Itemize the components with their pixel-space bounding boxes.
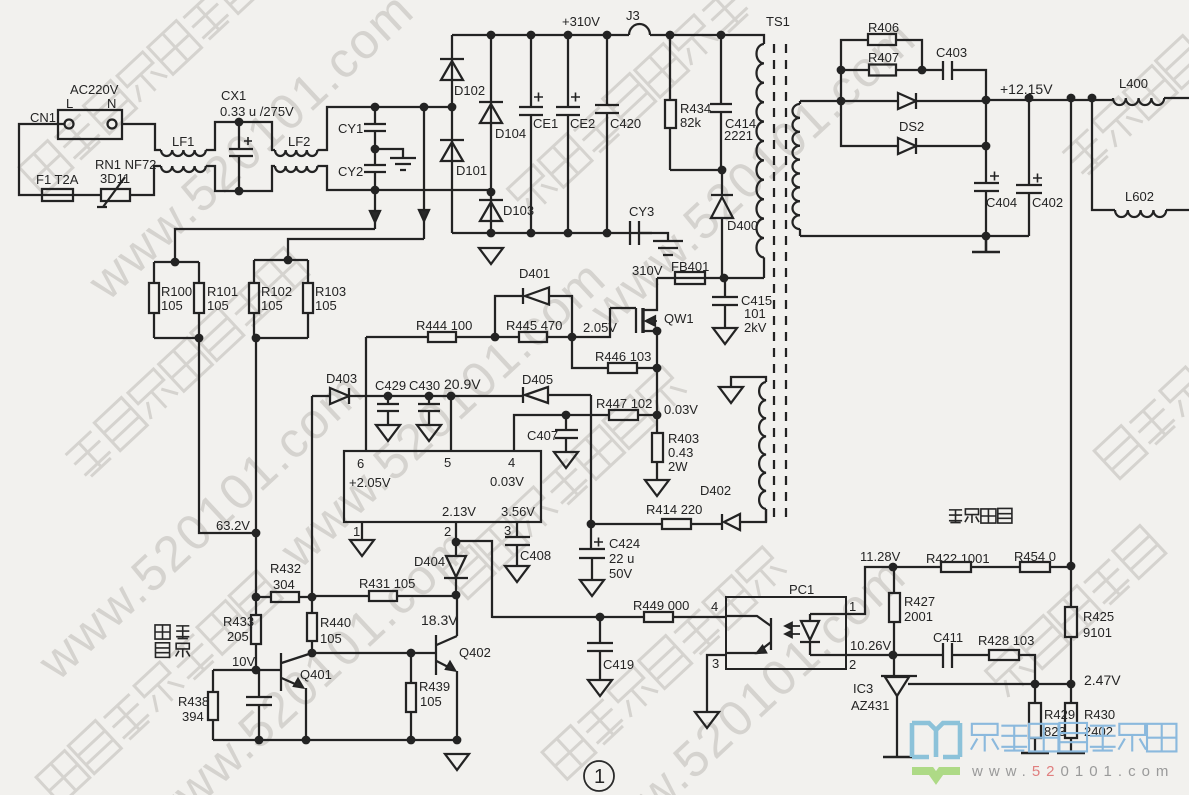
svg-text:R103: R103 bbox=[315, 284, 346, 299]
svg-text:D403: D403 bbox=[326, 371, 357, 386]
svg-text:L: L bbox=[66, 96, 73, 111]
node sense riser bbox=[1067, 94, 1076, 103]
node CX1 top bbox=[235, 118, 244, 127]
node 11.28V bbox=[889, 563, 898, 572]
resistor R425 bbox=[1065, 566, 1077, 684]
page number circle 1 bbox=[584, 761, 614, 791]
svg-text:205: 205 bbox=[227, 629, 249, 644]
svg-text:R414 220: R414 220 bbox=[646, 502, 702, 517]
svg-text:5: 5 bbox=[444, 455, 451, 470]
node rail C420 bbox=[603, 31, 612, 40]
resistor R431 bbox=[312, 591, 456, 601]
node L602 bbox=[1088, 94, 1097, 103]
svg-text:R428 103: R428 103 bbox=[978, 633, 1034, 648]
resistor R454 bbox=[1020, 562, 1050, 572]
transistor Q402 bbox=[436, 596, 457, 740]
resistor R101 bbox=[154, 262, 204, 338]
node R434 C414 bbox=[718, 166, 727, 175]
svg-text:L602: L602 bbox=[1125, 189, 1154, 204]
wire D403 anode riser bbox=[311, 396, 313, 597]
resistor R430 bbox=[1057, 684, 1085, 753]
capacitor C424 bbox=[579, 524, 605, 580]
wire 2.05V node to QW1 gate bbox=[572, 308, 610, 337]
logo green chevron bbox=[912, 771, 960, 778]
node 2.47V bbox=[1067, 680, 1076, 689]
svg-text:3D11: 3D11 bbox=[100, 171, 130, 186]
IC U1 box bbox=[344, 451, 541, 522]
wire Q402 base row bbox=[312, 652, 436, 654]
node Q402 base bbox=[308, 649, 317, 658]
node C429 bbox=[384, 392, 393, 401]
node 2.05V bbox=[568, 333, 577, 342]
svg-text:LF1: LF1 bbox=[172, 134, 194, 149]
resistor R439 bbox=[406, 653, 416, 740]
resistor R440 bbox=[307, 597, 317, 653]
svg-text:394: 394 bbox=[182, 709, 204, 724]
svg-text:2.47V: 2.47V bbox=[1084, 672, 1121, 688]
svg-text:20.9V: 20.9V bbox=[444, 376, 481, 392]
node bottom D103 bbox=[487, 229, 496, 238]
wire pin2 riser bbox=[455, 522, 457, 542]
+310V top rail with J3 jumper bbox=[452, 24, 764, 44]
node C404 gnd bbox=[982, 232, 991, 241]
resistor R449 bbox=[644, 612, 673, 622]
resistor R403 bbox=[652, 415, 663, 480]
svg-text:R449 000: R449 000 bbox=[633, 598, 689, 613]
svg-text:10V: 10V bbox=[232, 654, 255, 669]
svg-text:R444 100: R444 100 bbox=[416, 318, 472, 333]
ground under C408 bbox=[505, 566, 529, 582]
svg-text:R438: R438 bbox=[178, 694, 209, 709]
wire CN1 N to LF1 top bbox=[122, 124, 161, 150]
svg-text:+2.05V: +2.05V bbox=[349, 475, 391, 490]
node C407 bbox=[562, 411, 571, 420]
svg-text:CN1: CN1 bbox=[30, 110, 56, 125]
ground under R403 bbox=[645, 480, 669, 496]
svg-text:101: 101 bbox=[744, 306, 766, 321]
svg-text:D404: D404 bbox=[414, 554, 445, 569]
optocoupler PC1 box bbox=[726, 597, 846, 669]
svg-text:11.28V: 11.28V bbox=[860, 549, 901, 564]
resistor R438 bbox=[208, 670, 218, 740]
svg-text:R422 1001: R422 1001 bbox=[926, 551, 990, 566]
wire QW1 source chain bbox=[656, 331, 658, 415]
ground under C419 bbox=[588, 680, 612, 696]
svg-text:www.520101.com: www.520101.com bbox=[971, 763, 1174, 780]
svg-text:2.13V: 2.13V bbox=[442, 504, 476, 519]
svg-text:+12.15V: +12.15V bbox=[1000, 81, 1053, 97]
svg-text:C419: C419 bbox=[603, 657, 634, 672]
wire 2.47V reference row bbox=[908, 683, 1071, 685]
svg-text:R447 102: R447 102 bbox=[596, 396, 652, 411]
ground under pin1 bbox=[350, 540, 374, 556]
wire R449 row bbox=[492, 616, 726, 618]
svg-text:105: 105 bbox=[315, 298, 337, 313]
ground under C429 bbox=[376, 425, 400, 441]
svg-text:0.43: 0.43 bbox=[668, 445, 693, 460]
resistor R414 bbox=[662, 519, 722, 529]
node R102 bottom bbox=[252, 334, 261, 343]
svg-text:RN1 NF72: RN1 NF72 bbox=[95, 157, 156, 172]
svg-text:2: 2 bbox=[849, 657, 856, 672]
ground under C430 bbox=[417, 425, 441, 441]
resistor R407 bbox=[841, 65, 922, 76]
node 10.26V bbox=[889, 651, 898, 660]
resistor R428 bbox=[989, 650, 1035, 684]
svg-text:R102: R102 bbox=[261, 284, 292, 299]
svg-text:R454 0: R454 0 bbox=[1014, 549, 1056, 564]
svg-text:R431 105: R431 105 bbox=[359, 576, 415, 591]
capacitor C411 bbox=[943, 643, 989, 668]
ground bar under C404 bbox=[972, 236, 1000, 252]
inductor LF2 top winding bbox=[275, 150, 317, 156]
svg-text:63.2V: 63.2V bbox=[216, 518, 250, 533]
svg-text:R445 470: R445 470 bbox=[506, 318, 562, 333]
node CX1 bottom bbox=[235, 187, 244, 196]
wire PC1 pin1 to 11.28V node bbox=[846, 567, 893, 614]
wire PC1 pin2 to 10.26V node bbox=[846, 654, 893, 656]
wire CY1 rail arrow to R102 net bbox=[419, 107, 429, 239]
node bottom CE1 bbox=[527, 229, 536, 238]
transformer TS1 feedback winding bbox=[731, 377, 766, 522]
diode D104 bbox=[479, 35, 503, 192]
svg-text:18.3V: 18.3V bbox=[421, 612, 458, 628]
wire 12V winding top row bbox=[800, 100, 898, 102]
node bottom C420 bbox=[603, 229, 612, 238]
ground at feedback winding top bbox=[719, 387, 743, 403]
node C402 top bbox=[1025, 94, 1034, 103]
ground under D103 bbox=[479, 248, 503, 264]
ground under C424 bbox=[580, 580, 604, 596]
svg-text:+310V: +310V bbox=[562, 14, 600, 29]
svg-text:R439: R439 bbox=[419, 679, 450, 694]
capacitor CE2 bbox=[556, 35, 580, 233]
wire FB401 to primary winding bbox=[724, 277, 764, 279]
node +12.15V bbox=[982, 96, 991, 105]
diode D402 bbox=[722, 509, 766, 530]
bottom rail of mains-detect block bbox=[213, 739, 457, 741]
svg-text:9101: 9101 bbox=[1083, 625, 1112, 640]
node bottom CE2 bbox=[564, 229, 573, 238]
svg-text:3.56V: 3.56V bbox=[501, 504, 535, 519]
wire 20.9V rail to D405 bbox=[429, 395, 523, 397]
logo Chinese site name bbox=[971, 723, 1177, 752]
node R407 C403 bbox=[918, 66, 927, 75]
node R406 R407 bbox=[837, 66, 846, 75]
node C419 bbox=[596, 613, 605, 622]
wire F1 to RN1 bbox=[73, 194, 101, 196]
wire LF1 bottom to CX1 bottom rail bbox=[206, 166, 275, 191]
fuse F1 bbox=[42, 189, 73, 201]
svg-text:C430: C430 bbox=[409, 378, 440, 393]
wire R414 row bbox=[591, 523, 662, 525]
svg-text:R406: R406 bbox=[868, 20, 899, 35]
wire pin3 riser bbox=[516, 522, 518, 537]
svg-text:L400: L400 bbox=[1119, 76, 1148, 91]
svg-text:C403: C403 bbox=[936, 45, 967, 60]
PC1 LED bbox=[800, 614, 820, 655]
node R439 top bbox=[407, 649, 416, 658]
svg-text:AZ431: AZ431 bbox=[851, 698, 889, 713]
PC1 internal leads bbox=[810, 614, 846, 655]
diode D101 bbox=[440, 107, 464, 233]
svg-text:CE2: CE2 bbox=[570, 116, 595, 131]
fuse FB401 bbox=[657, 272, 724, 284]
wire LF2 top to CY1 top rail and bridge AC1 bbox=[317, 107, 452, 150]
wire +12.15V sense riser bbox=[1070, 98, 1072, 566]
wire +12.15V rail bbox=[986, 100, 1113, 146]
node rail C414 bbox=[717, 31, 726, 40]
capacitor near Q401 bbox=[246, 670, 272, 740]
diode DS2 upper bbox=[898, 93, 986, 109]
transformer TS1 primary winding bbox=[757, 44, 765, 278]
svg-text:2221: 2221 bbox=[724, 128, 753, 143]
svg-text:PC1: PC1 bbox=[789, 582, 814, 597]
svg-text:R425: R425 bbox=[1083, 609, 1114, 624]
capacitor C415 bbox=[712, 278, 738, 328]
node rail CE1 bbox=[527, 31, 536, 40]
node R454 right bbox=[1067, 562, 1076, 571]
capacitor CX1 bbox=[229, 122, 253, 191]
ground under C415 bbox=[713, 328, 737, 344]
connector CN1 bbox=[58, 110, 122, 139]
resistor R445 bbox=[495, 332, 572, 342]
svg-text:R427: R427 bbox=[904, 594, 935, 609]
node rail Q402e bbox=[453, 736, 462, 745]
svg-text:AC220V: AC220V bbox=[70, 82, 119, 97]
resistor R103 bbox=[254, 260, 313, 338]
svg-text:D101: D101 bbox=[456, 163, 487, 178]
transformer TS1 12V winding bbox=[792, 101, 800, 236]
node R100 bottom bbox=[195, 334, 204, 343]
svg-text:6: 6 bbox=[357, 456, 364, 471]
capacitor C402 bbox=[1016, 98, 1042, 236]
node rail R434 bbox=[666, 31, 675, 40]
svg-text:3: 3 bbox=[504, 523, 511, 538]
node FB401 D400 bbox=[720, 274, 729, 283]
node R432 left bbox=[252, 593, 261, 602]
wire pin1 to ground bbox=[361, 522, 363, 540]
node R444 R445 bbox=[491, 333, 500, 342]
svg-text:2.05V: 2.05V bbox=[583, 320, 617, 335]
svg-text:R429: R429 bbox=[1044, 707, 1075, 722]
capacitor CY2 bbox=[364, 149, 386, 190]
capacitor C419 bbox=[587, 617, 613, 680]
ground under PC1 pin3 bbox=[695, 712, 719, 728]
diode D400 bbox=[711, 195, 733, 278]
svg-text:C404: C404 bbox=[986, 195, 1017, 210]
node rail cap bbox=[255, 736, 264, 745]
svg-text:D103: D103 bbox=[503, 203, 534, 218]
inductor LF1 top winding bbox=[161, 150, 206, 156]
resistor R446 bbox=[572, 337, 657, 373]
node DS2 lower out bbox=[982, 142, 991, 151]
svg-text:1: 1 bbox=[594, 766, 605, 788]
node R100 top bbox=[171, 258, 180, 267]
svg-text:10.26V: 10.26V bbox=[850, 638, 892, 653]
label mains detect (Chinese) bbox=[155, 625, 190, 657]
bottom rail of bridge bbox=[452, 232, 652, 234]
svg-text:R434: R434 bbox=[680, 101, 711, 116]
svg-text:C420: C420 bbox=[610, 116, 641, 131]
svg-text:C429: C429 bbox=[375, 378, 406, 393]
svg-text:310V: 310V bbox=[632, 263, 663, 278]
node R414 C424 bbox=[587, 520, 596, 529]
svg-text:1: 1 bbox=[353, 524, 360, 539]
node D404 R431 bbox=[452, 591, 461, 600]
wire pin4 riser and R447 row bbox=[514, 415, 566, 451]
wire CN1 L to fuse row bbox=[19, 124, 65, 195]
diode DS2 lower bbox=[841, 101, 986, 154]
node CY mid bbox=[371, 145, 380, 154]
svg-text:C402: C402 bbox=[1032, 195, 1063, 210]
svg-text:N: N bbox=[107, 96, 116, 111]
node R102 top bbox=[284, 256, 293, 265]
node bridge AC2 bbox=[487, 188, 496, 197]
svg-text:2: 2 bbox=[444, 524, 451, 539]
wire RN1 to LF1 bottom bbox=[130, 166, 161, 195]
diode D405 bbox=[523, 387, 591, 403]
node 20.9V pin5 bbox=[447, 392, 456, 401]
svg-text:1: 1 bbox=[849, 599, 856, 614]
inductor LF2 bottom winding bbox=[275, 166, 317, 172]
wire D405 riser to R414 row bbox=[590, 395, 592, 524]
svg-text:105: 105 bbox=[420, 694, 442, 709]
svg-text:CY2: CY2 bbox=[338, 164, 363, 179]
svg-text:CE1: CE1 bbox=[533, 116, 558, 131]
wire PC1 pin3 to ground bbox=[707, 655, 726, 712]
svg-text:R407: R407 bbox=[868, 50, 899, 65]
diode D404 bbox=[444, 542, 468, 596]
resistor R100 bbox=[149, 262, 159, 338]
capacitor CY3 bbox=[630, 221, 639, 245]
svg-text:J3: J3 bbox=[626, 8, 640, 23]
node C430 bbox=[425, 392, 434, 401]
svg-text:4: 4 bbox=[711, 599, 718, 614]
inductor LF1 bottom winding bbox=[161, 166, 206, 172]
svg-text:QW1: QW1 bbox=[664, 311, 694, 326]
resistor R434 bbox=[665, 35, 676, 170]
svg-text:CY3: CY3 bbox=[629, 204, 654, 219]
resistor R432 bbox=[256, 592, 312, 602]
capacitor C407 bbox=[555, 415, 578, 452]
svg-text:3: 3 bbox=[712, 656, 719, 671]
svg-text:Q402: Q402 bbox=[459, 645, 491, 660]
svg-text:R100: R100 bbox=[161, 284, 192, 299]
wire R102 net down to R432 node bbox=[255, 338, 257, 597]
svg-text:2kV: 2kV bbox=[744, 320, 767, 335]
svg-text:R446 103: R446 103 bbox=[595, 349, 651, 364]
capacitor C429 bbox=[377, 396, 399, 425]
node 10V bbox=[252, 666, 261, 675]
diode D401 bbox=[495, 288, 572, 338]
svg-text:C411: C411 bbox=[933, 630, 963, 645]
node rail D104 bbox=[487, 31, 496, 40]
node rail Q401e bbox=[302, 736, 311, 745]
PC1 light arrows bbox=[785, 623, 800, 638]
svg-text:D401: D401 bbox=[519, 266, 550, 281]
node R432 right bbox=[308, 593, 317, 602]
capacitor C404 bbox=[974, 146, 999, 236]
svg-text:R403: R403 bbox=[668, 431, 699, 446]
wire pin2 node to R449 row bbox=[456, 541, 492, 618]
label error sampling (Chinese) bbox=[949, 508, 1012, 523]
diode D103 bbox=[479, 192, 503, 233]
resistor R406 bbox=[841, 34, 922, 101]
svg-text:CX1: CX1 bbox=[221, 88, 246, 103]
svg-text:D102: D102 bbox=[454, 83, 485, 98]
node AC1 rail bbox=[420, 103, 429, 112]
resistor R422 bbox=[941, 562, 971, 572]
varistor RN1 bbox=[97, 177, 130, 207]
svg-text:50V: 50V bbox=[609, 566, 632, 581]
transformer core dashed lines bbox=[774, 44, 786, 524]
node bridge AC1 bbox=[448, 103, 457, 112]
inductor L602 bbox=[1115, 210, 1189, 217]
svg-text:R101: R101 bbox=[207, 284, 238, 299]
PC1 phototransistor bbox=[726, 616, 771, 653]
node winding top bbox=[837, 97, 846, 106]
svg-text:D104: D104 bbox=[495, 126, 526, 141]
svg-text:D405: D405 bbox=[522, 372, 553, 387]
svg-text:FB401: FB401 bbox=[671, 259, 709, 274]
diode D102 bbox=[440, 35, 464, 107]
node CY1 top bbox=[371, 103, 380, 112]
resistor R427 bbox=[889, 567, 900, 655]
svg-text:IC3: IC3 bbox=[853, 681, 873, 696]
svg-text:D400: D400 bbox=[727, 218, 758, 233]
capacitor C414 bbox=[710, 35, 732, 170]
svg-text:105: 105 bbox=[161, 298, 183, 313]
capacitor CY1 bbox=[364, 107, 386, 149]
resistor R447 bbox=[566, 410, 657, 420]
resistor R433 bbox=[251, 597, 261, 670]
svg-text:LF2: LF2 bbox=[288, 134, 310, 149]
capacitor C430 bbox=[388, 396, 440, 425]
wire LF2 bottom to CY2 bottom rail and bridge AC2 bbox=[317, 166, 492, 190]
svg-text:4: 4 bbox=[508, 455, 515, 470]
svg-text:Q401: Q401 bbox=[300, 667, 332, 682]
shunt regulator IC3 AZ431 bbox=[881, 655, 921, 757]
svg-text:2W: 2W bbox=[668, 459, 688, 474]
svg-text:105: 105 bbox=[207, 298, 229, 313]
wire LF1 top to CX1 top rail bbox=[206, 122, 275, 150]
node CY2 bottom bbox=[371, 186, 380, 195]
svg-text:R440: R440 bbox=[320, 615, 351, 630]
wire R434/C414 junction bbox=[670, 170, 722, 195]
resistor R429 bbox=[1021, 684, 1049, 753]
svg-text:304: 304 bbox=[273, 577, 295, 592]
svg-text:0.03V: 0.03V bbox=[664, 402, 698, 417]
svg-text:105: 105 bbox=[320, 631, 342, 646]
wire to R102 network bbox=[288, 239, 424, 260]
capacitor C403 bbox=[922, 61, 986, 101]
svg-text:R430: R430 bbox=[1084, 707, 1115, 722]
svg-text:D402: D402 bbox=[700, 483, 731, 498]
wire to R100 network bbox=[175, 229, 375, 262]
node 0.03V bbox=[653, 411, 662, 420]
svg-text:CY1: CY1 bbox=[338, 121, 363, 136]
svg-text:C408: C408 bbox=[520, 548, 551, 563]
svg-text:R433: R433 bbox=[223, 614, 254, 629]
wire pin5 riser bbox=[450, 396, 452, 451]
wire L602 branch bbox=[1092, 98, 1115, 210]
resistor R444 bbox=[366, 332, 495, 342]
node R428 ref bbox=[1031, 680, 1040, 689]
node R446 source bbox=[653, 364, 662, 373]
MOSFET QW1 bbox=[610, 278, 657, 333]
capacitor C408 bbox=[505, 537, 530, 566]
